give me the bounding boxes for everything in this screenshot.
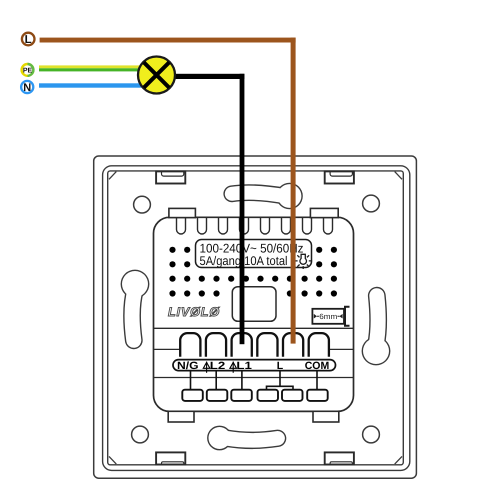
stub N/G xyxy=(190,371,192,390)
node L xyxy=(22,33,35,47)
stub L1 xyxy=(241,371,243,390)
mounting tab top-right xyxy=(325,171,354,183)
symbol before L1 xyxy=(230,362,237,373)
divider line above terminals xyxy=(154,327,354,329)
divider line below label strip xyxy=(154,377,354,379)
svg-text:L2: L2 xyxy=(210,360,226,372)
mounting tab bottom-left xyxy=(156,452,185,464)
bulb icon xyxy=(294,254,312,269)
wall plate inner frame xyxy=(108,171,404,465)
contact pad COM xyxy=(307,390,328,401)
switch module body xyxy=(154,217,354,411)
wire lamp-to-L1 black horizontal xyxy=(158,74,244,79)
corner chamfer bottom-right xyxy=(395,456,402,464)
svg-text:L1: L1 xyxy=(236,360,252,372)
screw hole circle bottom-right xyxy=(363,426,380,443)
module bottom tab left xyxy=(168,411,194,422)
wire N blue xyxy=(39,83,150,87)
corner chamfer top-right xyxy=(395,172,402,180)
stub COM xyxy=(316,371,318,390)
module top tab left xyxy=(169,208,196,217)
ventilation fins xyxy=(177,218,333,235)
svg-text:L: L xyxy=(25,34,32,46)
terminal arch L1 xyxy=(232,333,252,357)
6mm gauge box xyxy=(312,309,344,324)
wall plate outer frame xyxy=(94,156,417,478)
module bottom tab right xyxy=(313,411,339,422)
wire PE green stripe xyxy=(39,68,150,71)
screw hole circle top-left xyxy=(134,196,151,213)
svg-text:6mm: 6mm xyxy=(319,312,337,321)
mounting tab bottom-right xyxy=(325,452,354,464)
svg-text:PE: PE xyxy=(23,67,33,74)
stub L2 xyxy=(215,371,217,390)
svg-text:N: N xyxy=(23,82,31,94)
right keyhole slot xyxy=(362,296,391,366)
contact pad L2 xyxy=(207,390,228,401)
terminal arch N/G xyxy=(180,333,200,357)
terminal arch L (4) xyxy=(257,333,277,357)
contact pad L5 xyxy=(282,390,303,401)
wire PE yellow stripe xyxy=(39,65,150,68)
wall plate middle frame xyxy=(103,166,410,471)
svg-text:COM: COM xyxy=(305,360,330,372)
svg-text:L: L xyxy=(277,360,284,372)
screw hole circle bottom-left xyxy=(132,426,149,443)
6mm gauge text xyxy=(314,312,343,321)
corner chamfer top-left xyxy=(109,172,116,180)
contact pad L1 xyxy=(231,390,252,401)
wire L brown vertical xyxy=(291,38,296,344)
contact pad L4 xyxy=(258,390,279,401)
node N xyxy=(21,81,33,94)
lamp symbol xyxy=(138,57,175,94)
side line left of terminal 1 xyxy=(154,348,181,350)
bottom adjustment slot xyxy=(207,426,278,451)
terminal label strip xyxy=(173,360,336,371)
terminal arch L2 xyxy=(206,333,226,357)
module top tab right xyxy=(310,208,338,217)
ratings box xyxy=(196,240,312,268)
terminal arch COM xyxy=(309,333,329,357)
top adjustment slot xyxy=(232,183,303,210)
dot grid xyxy=(169,247,337,297)
mounting tab top-left xyxy=(156,171,185,183)
strip gauge bracket xyxy=(345,307,350,326)
corner chamfer bottom-left xyxy=(109,456,116,464)
wire lamp-to-L1 black vertical xyxy=(240,74,245,344)
svg-text:N/G: N/G xyxy=(177,360,199,372)
side line right of terminal 6 xyxy=(330,348,354,350)
central mechanism hole xyxy=(232,287,276,322)
wire L brown horizontal xyxy=(40,38,296,43)
terminal arch L (5) xyxy=(283,333,303,357)
left keyhole slot xyxy=(121,270,150,341)
node PE xyxy=(22,64,34,76)
contact pad N/G xyxy=(182,390,203,401)
svg-text:LIVØLØ: LIVØLØ xyxy=(168,305,220,319)
L bracket linking terminals 4 and 5 xyxy=(267,371,294,390)
symbol before L2 xyxy=(203,362,210,373)
screw hole circle top-right xyxy=(363,195,380,212)
